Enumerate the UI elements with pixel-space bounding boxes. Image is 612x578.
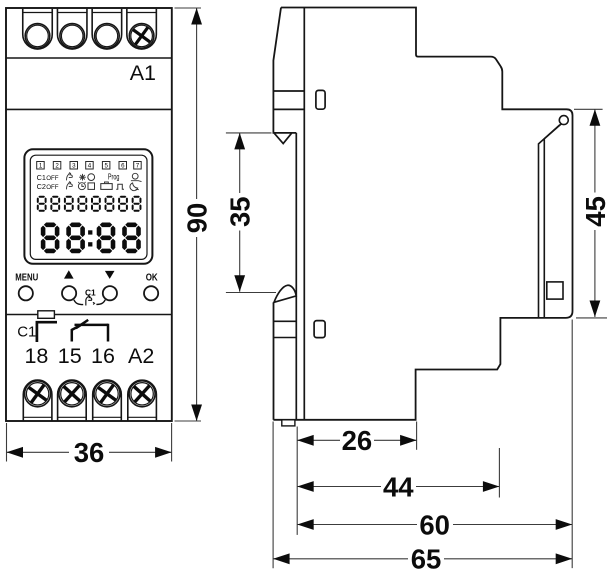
spring clip front face: [273, 302, 275, 420]
separator tab: [38, 311, 55, 319]
LCD moon icon: [130, 183, 139, 191]
dimension 36 extension lines: [7, 423, 172, 462]
separator line below A1 area: [6, 108, 172, 110]
LCD inner frame: [30, 155, 147, 259]
LCD sunrise icon: [131, 173, 142, 181]
bottom terminal screw 4: [128, 380, 157, 420]
separator line above terminal labels: [6, 314, 172, 316]
bottom extension lines: [273, 320, 572, 569]
LCD pulse icon: [116, 184, 124, 189]
top terminal 2 clamp: [57, 9, 86, 49]
svg-text:A1: A1: [130, 61, 156, 85]
dimension 26 line: [297, 439, 416, 441]
bottom screw 1 cross: [22, 378, 53, 409]
up triangle: [64, 270, 74, 278]
bottom terminal screw 2: [58, 380, 87, 421]
clip detail line upper: [274, 320, 297, 322]
top terminal 3 clamp: [92, 9, 122, 49]
LCD large 88:88 display: [41, 223, 141, 254]
DIN rail spring clip hump: [274, 285, 296, 302]
svg-text:36: 36: [74, 437, 105, 468]
down triangle: [105, 271, 115, 279]
bottom screw 3 cross: [92, 378, 123, 409]
svg-text:60: 60: [419, 509, 450, 540]
LCD day 4 box: [86, 162, 94, 170]
LCD hand icon row2: [67, 182, 73, 190]
LCD day 5 box: [102, 162, 110, 170]
dimension 35 extension lines: [226, 133, 276, 293]
LCD day 7 box: [134, 162, 142, 170]
svg-text:MENU: MENU: [15, 273, 38, 284]
svg-text:35: 35: [225, 196, 256, 227]
LCD clock icon: [78, 182, 85, 190]
bottom screw 2 cross: [56, 378, 87, 409]
svg-text:1: 1: [39, 163, 43, 170]
front view device body outline: [6, 8, 172, 421]
dimension 60 line: [297, 524, 572, 526]
svg-text:OK: OK: [146, 273, 159, 284]
recessed channel front wall: [295, 133, 297, 420]
LCD ring icon: [88, 174, 95, 181]
dimension 45 arrows: [590, 109, 601, 126]
svg-text:A2: A2: [128, 344, 154, 368]
release lever pivot circle: [559, 116, 568, 125]
DIN rail upper catch tooth: [274, 133, 291, 143]
svg-text:7: 7: [136, 163, 140, 170]
bottom terminal screw 1: [23, 380, 52, 421]
bottom terminal screw 3: [93, 380, 122, 421]
dimension 90 arrows: [191, 8, 202, 25]
lower side hole: [314, 321, 325, 338]
separator line below top terminals: [6, 57, 172, 59]
button down circle: [103, 286, 117, 300]
svg-text:26: 26: [342, 425, 373, 456]
LCD day 1 box: [37, 162, 45, 170]
bottom tab: [282, 420, 295, 426]
svg-text:Prog: Prog: [108, 172, 120, 182]
dimension 36 line: [7, 451, 172, 453]
clip detail line lower: [274, 337, 297, 339]
LCD day 6 box: [119, 162, 127, 170]
dimension 90 extension lines: [175, 8, 202, 421]
svg-text:90: 90: [182, 203, 213, 234]
top terminal 4 clamp: [127, 9, 157, 49]
svg-text:6: 6: [121, 163, 125, 170]
side view flange front edge: [273, 8, 296, 133]
svg-text:4: 4: [88, 163, 92, 170]
upper side hole: [316, 90, 325, 109]
dimension 65 arrows: [273, 553, 290, 564]
DIN slot line lower: [273, 108, 304, 110]
top terminal 1 clamp: [23, 9, 53, 49]
hand press icon between buttons: [86, 296, 95, 306]
svg-text:2: 2: [55, 163, 59, 170]
LCD day 3 box: [70, 162, 78, 170]
dimension 45 extension lines: [574, 109, 607, 318]
svg-text:C1: C1: [17, 324, 36, 341]
LCD sun/asterisk icon: [79, 174, 86, 181]
DIN slot line upper: [273, 90, 304, 92]
svg-text:5: 5: [104, 163, 108, 170]
top terminal 4 screw cross: [127, 21, 156, 50]
side view main outline: [273, 8, 572, 420]
dimension 36 arrows: [7, 447, 24, 458]
dimension 65 line: [273, 558, 572, 560]
svg-text:18: 18: [24, 344, 48, 368]
release lever square detail: [547, 282, 563, 299]
button up circle: [62, 286, 76, 300]
button MENU circle: [19, 286, 33, 300]
dimension 26 arrows: [297, 435, 314, 446]
dimension 60 arrows: [297, 519, 314, 530]
bottom screw 4 cross: [127, 378, 158, 409]
svg-text:44: 44: [383, 471, 414, 502]
LCD day 2 box: [53, 162, 61, 170]
connector curve right: [96, 300, 105, 305]
svg-text:15: 15: [58, 344, 82, 368]
dimension 45 line: [594, 109, 596, 317]
LCD eight-digit segment row: [37, 196, 142, 212]
dimension 35 line: [239, 133, 241, 292]
flange-body boundary line: [303, 8, 305, 420]
svg-text:C1OFF: C1OFF: [37, 173, 59, 182]
dimension 35 arrows: [234, 133, 245, 150]
button OK circle: [144, 286, 158, 300]
dimension 44 arrows: [297, 481, 314, 492]
LCD suitcase icon: [101, 182, 112, 189]
svg-text:16: 16: [91, 344, 115, 368]
svg-text:C1: C1: [85, 287, 96, 297]
svg-text:C2OFF: C2OFF: [37, 182, 59, 191]
svg-text:65: 65: [411, 544, 442, 575]
LCD box icon: [88, 183, 95, 190]
contact symbol terminal 18: [37, 322, 57, 342]
LCD hand icon row1: [67, 173, 73, 181]
contact symbol switch 15-16: [72, 320, 108, 342]
release lever edges: [539, 124, 562, 318]
dimension 44 line: [297, 486, 499, 488]
connector curve left: [74, 300, 83, 305]
svg-text:45: 45: [580, 196, 611, 227]
svg-text:3: 3: [72, 163, 76, 170]
LCD outer frame: [24, 149, 152, 263]
dimension 90 line: [196, 8, 198, 421]
